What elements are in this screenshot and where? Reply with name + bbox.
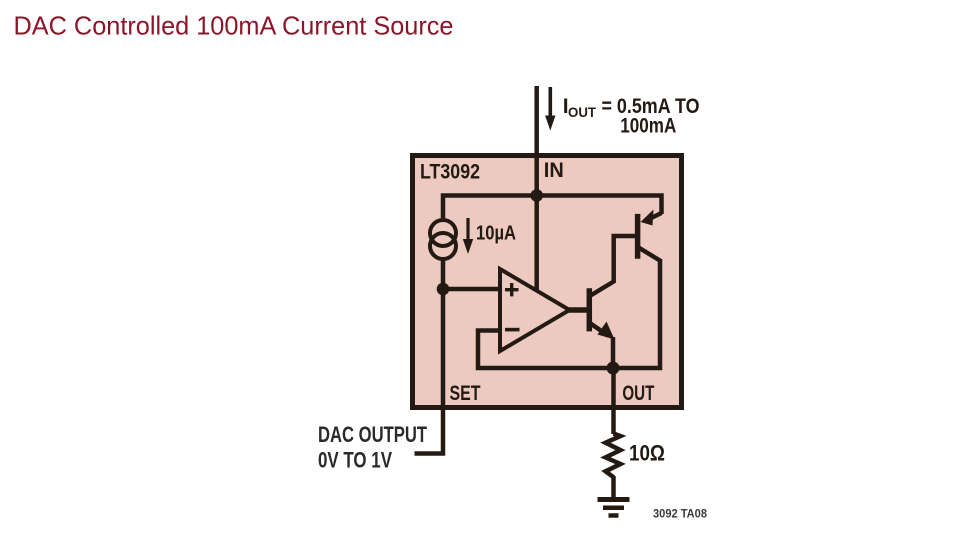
wire: Q1 collector riser up to Q2 base [614,236,635,283]
junction node: OUT [607,362,620,375]
wire: Q1 emitter down to OUT node [611,337,616,368]
svg-text:10Ω: 10Ω [629,441,665,466]
transistor Q1 NPN pass device [589,282,613,336]
op-amp plus symbol [505,283,519,296]
wire: IN pin vertical from top into op-amp power [534,86,539,291]
svg-text:IN: IN [544,159,564,182]
junction node: SET [437,283,450,296]
junction node: IN rail [530,189,543,202]
wire: plus input from SET node to op-amp [443,287,500,292]
wire: internal top rail from current source to Q2 emitter corner [443,196,662,219]
svg-text:10µA: 10µA [476,222,516,245]
wire: resistor to ground [611,476,616,498]
arrow: Q1 emitter [598,322,615,340]
arrow: Q2 emitter [641,210,654,226]
svg-text:OUT: OUT [568,105,597,120]
svg-text:3092 TA08: 3092 TA08 [653,507,707,521]
wire: OUT node to Q2 collector riser [613,261,660,369]
svg-text:DAC OUTPUT: DAC OUTPUT [318,422,427,447]
svg-text:LT3092: LT3092 [420,161,480,184]
svg-text:SET: SET [450,382,481,405]
transistor Q2 PNP upper device [638,213,662,262]
svg-text:DAC Controlled 100mA Current S: DAC Controlled 100mA Current Source [14,11,454,41]
arrow: 10uA current direction [463,218,473,254]
ground symbol [598,500,630,516]
arrow: IOUT current direction at top [545,87,555,131]
IC U1 LT3092 package box [413,156,682,408]
op-amp U2 triangle [500,269,570,351]
resistor R1 10 ohm zigzag [606,434,621,478]
svg-text:OUT: OUT [622,382,654,405]
wire: minus input feedback from op-amp around to OUT node [478,331,613,369]
wire: SET chain from current source bottom down out of box to DAC stub [415,258,444,454]
svg-text:0V TO 1V: 0V TO 1V [318,448,392,473]
svg-text:100mA: 100mA [620,115,676,138]
op-amp minus symbol [505,328,520,332]
wire: OUT pin vertical down to resistor [611,368,616,434]
current source I1 10uA (two overlapping circles) [430,220,456,259]
wire: op-amp output to Q1 base [566,307,587,313]
